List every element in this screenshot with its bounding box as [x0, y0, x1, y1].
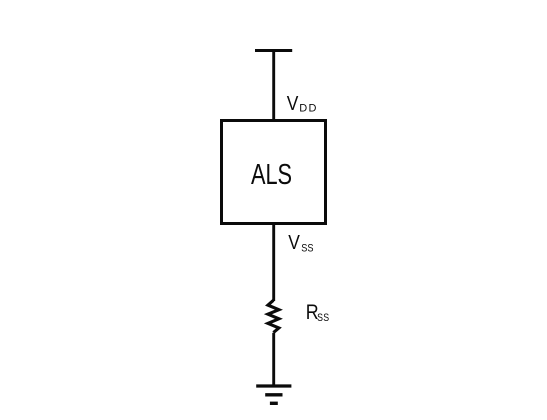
label RSS	[306, 301, 330, 325]
svg-text:SS: SS	[301, 243, 314, 255]
wire resistor RSS to ground	[272, 333, 275, 386]
ALS block U1	[222, 121, 326, 224]
wire ALS box to resistor RSS	[272, 223, 275, 301]
svg-text:ALS: ALS	[251, 159, 292, 191]
svg-text:DD: DD	[299, 103, 318, 115]
svg-text:V: V	[287, 93, 299, 116]
wire VDD rail to ALS box	[272, 51, 275, 122]
svg-text:V: V	[288, 232, 300, 255]
label ALS	[251, 159, 292, 191]
net label VDD	[287, 93, 318, 116]
net label VSS	[288, 232, 314, 255]
power rail VDD bar	[255, 49, 292, 52]
resistor RSS	[268, 300, 279, 332]
svg-text:SS: SS	[317, 312, 330, 324]
ground	[256, 386, 291, 403]
